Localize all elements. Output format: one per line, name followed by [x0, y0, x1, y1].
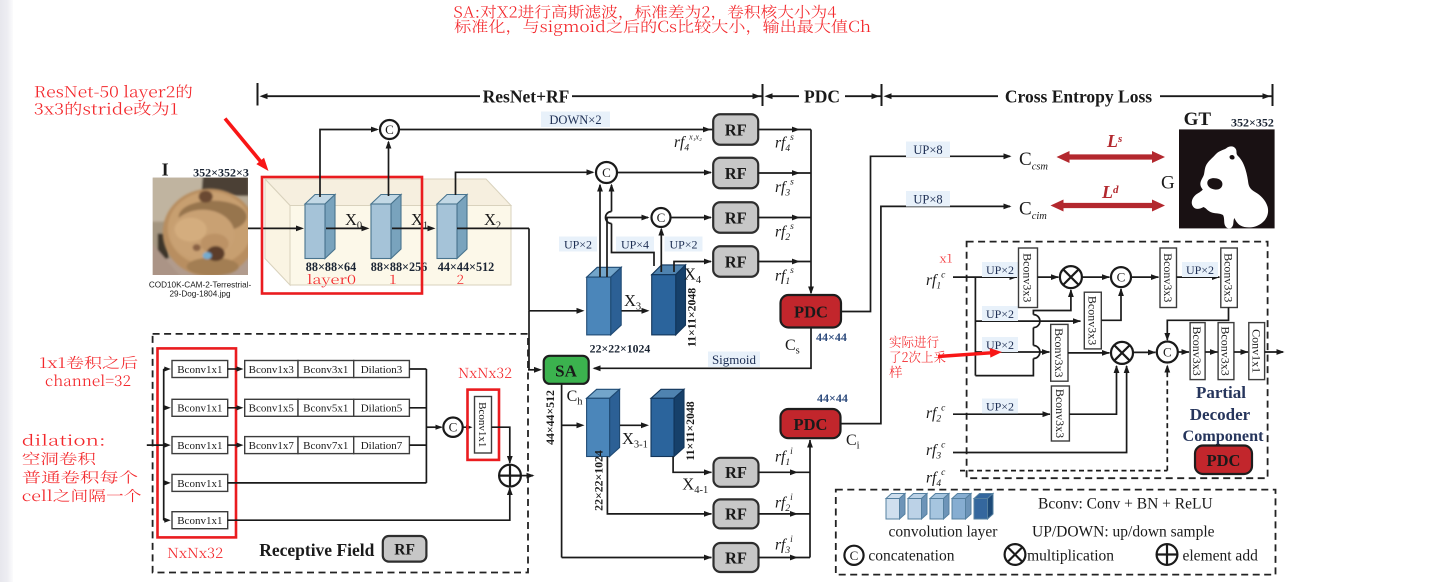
label UPx2 b — [665, 237, 703, 252]
svg-text:UP×2: UP×2 — [669, 237, 697, 251]
svg-text:UP×2: UP×2 — [986, 263, 1014, 277]
wire PDC to sigmoid SA — [594, 328, 811, 369]
wire rf1 branch down — [974, 277, 976, 376]
wire rf1 loop to mult1 — [975, 359, 1033, 376]
red annotation 2x upsample l3 — [889, 366, 902, 378]
Bconv3x3 box r1a — [1019, 248, 1038, 308]
svg-text:C: C — [657, 210, 666, 225]
wire collector to concat — [426, 426, 441, 428]
Bconv1x7 box — [245, 437, 298, 454]
GT image — [1179, 129, 1275, 228]
plus circle RF detail — [499, 465, 521, 487]
slab X2 — [437, 195, 467, 205]
Bconv1x3 box — [245, 361, 298, 378]
Bconv7x1 box — [298, 437, 354, 454]
arrow into Bconv1x1 row5 — [164, 519, 166, 521]
arrow row2 to triple — [228, 407, 238, 409]
label UPx2 r1b — [1182, 262, 1218, 277]
red label layer0 — [308, 274, 356, 287]
svg-text:Bconv3x3: Bconv3x3 — [1021, 253, 1035, 302]
svg-text:Cross Entropy Loss: Cross Entropy Loss — [1005, 86, 1152, 106]
slab X3 — [587, 267, 622, 277]
Bconv1x5 box — [245, 399, 298, 416]
wire X0 up to concat — [320, 130, 377, 198]
wire RF row3 output — [758, 217, 811, 219]
svg-text:Bconv3x3: Bconv3x3 — [1085, 296, 1099, 345]
input dog photo — [151, 176, 257, 277]
label UPx2 r1 — [982, 262, 1018, 277]
legend concat symbol — [844, 546, 863, 565]
svg-text:Partial: Partial — [1196, 383, 1246, 402]
wire row4 to collector — [228, 482, 427, 484]
RF detail output arrow — [521, 475, 533, 477]
svg-text:Bconv5x1: Bconv5x1 — [303, 403, 348, 415]
wire RFi row3 output — [759, 557, 811, 559]
legend add symbol — [1157, 544, 1178, 565]
svg-text:Conv1x1: Conv1x1 — [1249, 329, 1263, 373]
wire X3 up to C2 — [607, 218, 648, 278]
red label NxNx32 right — [459, 368, 512, 379]
slab X4 — [652, 265, 686, 275]
wire rf3 to mult2 — [953, 366, 1127, 453]
Bconv3x3 box r4 — [1051, 386, 1069, 441]
wire X2 to X3 — [529, 310, 578, 312]
concat circle d1 — [1111, 267, 1131, 287]
legend convolution layer slabs — [886, 494, 905, 499]
wire SA to X3-1 — [562, 424, 578, 426]
svg-text:GT: GT — [1184, 109, 1212, 130]
SA box — [544, 356, 589, 384]
svg-text:SA: SA — [555, 362, 577, 381]
wire row5 to plus — [228, 488, 510, 520]
Bconv3x3 box mid — [1084, 292, 1101, 349]
svg-text:C: C — [1117, 270, 1126, 285]
concat circle RF detail — [443, 418, 462, 437]
wire bconv to mult1 — [1038, 276, 1059, 278]
arrow into Bconv1x1 row4 — [164, 482, 166, 484]
Bconv3x3 box r7 — [1190, 323, 1205, 380]
red label NxNx32 bottom — [168, 548, 223, 559]
svg-text:PDC: PDC — [794, 303, 828, 322]
svg-text:Bconv7x1: Bconv7x1 — [303, 440, 348, 452]
backbone box (ResNet trunk) — [265, 179, 511, 206]
svg-text:Bconv3x3: Bconv3x3 — [1190, 326, 1204, 375]
wire RF row2 output — [758, 172, 811, 174]
Bconv1x1 box row5 — [172, 512, 228, 529]
mult circle 2 — [1111, 342, 1133, 364]
RF box row4 — [713, 246, 758, 277]
label UPx2 r4 — [982, 399, 1018, 414]
red annotation ResNet-50 line1 — [35, 84, 192, 101]
svg-text:Component: Component — [1183, 427, 1265, 445]
wire X2 out to right — [457, 227, 529, 229]
section bracket ResNet+RF — [257, 83, 259, 106]
svg-text:Bconv1x5: Bconv1x5 — [249, 403, 295, 415]
red annotation 2x upsample l2 — [890, 351, 945, 363]
wire X3 up to C1 (UPx2) — [599, 185, 601, 277]
wire X4-1 to RFi1 — [673, 457, 711, 473]
svg-text:11×11×2048: 11×11×2048 — [683, 401, 697, 460]
svg-text:RF: RF — [725, 505, 747, 524]
svg-text:C: C — [850, 548, 859, 563]
svg-text:Bconv1x3: Bconv1x3 — [249, 364, 295, 376]
svg-text:Dilation5: Dilation5 — [361, 403, 403, 415]
wire rf1 branch row2 — [975, 320, 1080, 322]
svg-text:RF: RF — [394, 542, 415, 559]
svg-text:UP×8: UP×8 — [913, 192, 942, 206]
RF detail collector wire — [425, 369, 427, 483]
collector wire to PDC top — [810, 130, 812, 294]
wire C2 to RF row3 — [671, 217, 712, 219]
slab X1 — [371, 195, 401, 205]
wire concat to RF4 — [399, 129, 713, 131]
red annotation dilation l1 — [23, 434, 104, 446]
wire X4 up to C2 (UPx2) — [660, 229, 662, 272]
wire concat2 to bconv r7 — [1178, 351, 1189, 353]
svg-text:RF: RF — [725, 548, 747, 567]
RF box i row2 — [714, 499, 759, 528]
Bconv1x1 box row3 — [172, 437, 228, 454]
svg-text:44×44: 44×44 — [816, 330, 847, 344]
wire mid box to concat1 — [1101, 289, 1121, 320]
slab X4-1 — [651, 389, 684, 398]
svg-text:22×22×1024: 22×22×1024 — [591, 450, 605, 511]
svg-text:multiplication: multiplication — [1027, 548, 1114, 565]
section bracket Cross Entropy Loss — [1272, 84, 1274, 106]
Bconv1x1 box row1 — [172, 361, 228, 378]
Dilation3 box — [354, 361, 410, 378]
svg-text:44×44: 44×44 — [817, 391, 848, 405]
label UPx2 a — [559, 237, 597, 252]
svg-text:PDC: PDC — [1207, 451, 1241, 470]
red annotation 1x1conv l1 — [40, 356, 137, 369]
Dilation5 box — [354, 399, 410, 416]
red annotation dilation l3 — [23, 470, 138, 483]
wire r7 to r8 — [1205, 351, 1217, 353]
svg-text:PDC: PDC — [794, 415, 828, 434]
red loss arrow Ls — [1068, 154, 1154, 159]
wire C1 to RF row2 — [617, 172, 711, 174]
svg-text:Bconv3x3: Bconv3x3 — [1161, 253, 1175, 302]
red arrow to row3 — [938, 353, 991, 357]
RF box row2 — [713, 158, 758, 189]
svg-text:Bconv: Conv + BN + ReLU: Bconv: Conv + BN + ReLU — [1038, 496, 1213, 513]
wire mult2 to concat2 — [1133, 351, 1156, 353]
wire rf4 dashed to concat2 — [960, 470, 1167, 472]
wire X2 up to concat C1 — [456, 172, 594, 195]
wire RFi row2 output — [759, 513, 811, 515]
label UPx2 r2 — [982, 306, 1018, 321]
svg-text:Bconv1x1: Bconv1x1 — [177, 364, 222, 376]
PDC box (lower) — [781, 409, 841, 438]
decoder output arrow — [1265, 351, 1283, 353]
wire r3 box to mult2 — [1068, 352, 1110, 354]
red annotation: SA gaussian note line2 — [455, 19, 871, 36]
RF detail dashed box — [153, 334, 528, 573]
arrow into Bconv1x1 row1 — [164, 368, 166, 370]
svg-text:Bconv1x7: Bconv1x7 — [249, 440, 295, 452]
arrow into Bconv1x1 row3 — [164, 444, 166, 446]
arrow row1 to triple — [228, 368, 238, 370]
red label 2 — [457, 275, 463, 284]
svg-text:ResNet+RF: ResNet+RF — [483, 86, 570, 106]
red annotation: SA gaussian note line1 — [454, 5, 836, 21]
svg-text:DOWN×2: DOWN×2 — [549, 113, 601, 127]
svg-text:C: C — [385, 122, 394, 137]
svg-text:88×88×64: 88×88×64 — [306, 260, 356, 274]
svg-text:Bconv3x1: Bconv3x1 — [303, 364, 348, 376]
svg-text:convolution layer: convolution layer — [889, 524, 999, 541]
red rectangle around layer0-1 — [262, 177, 422, 294]
Conv1x1 box — [1249, 323, 1265, 380]
wire row2 to collector — [409, 407, 426, 409]
label Sigmoid — [708, 352, 760, 368]
label UPx2 r3 — [982, 337, 1018, 352]
svg-text:11×11×2048: 11×11×2048 — [685, 288, 699, 347]
Bconv3x3 box r1b — [1160, 248, 1177, 308]
svg-text:Bconv3x3: Bconv3x3 — [1222, 253, 1236, 302]
svg-text:Bconv1x1: Bconv1x1 — [177, 515, 222, 527]
svg-text:22×22×1024: 22×22×1024 — [590, 342, 651, 356]
concat circle X0X1 — [380, 120, 399, 139]
red loss arrow Ld — [1062, 203, 1154, 208]
svg-text:Bconv1x1: Bconv1x1 — [177, 440, 222, 452]
svg-text:RF: RF — [725, 120, 747, 139]
concat circle C2 — [652, 208, 671, 227]
svg-text:RF: RF — [725, 252, 747, 271]
Bconv5x1 box — [298, 399, 354, 416]
red rect around Bconv1x1 column — [158, 348, 237, 537]
svg-text:352×352×3: 352×352×3 — [193, 166, 249, 180]
label UPx4 — [616, 237, 654, 252]
RF box row3 — [713, 202, 758, 233]
wire concat1 to bconv — [1131, 276, 1159, 278]
wire X4 to C1 (UPx4) with hop — [612, 224, 655, 267]
wire RF row4 output — [758, 261, 811, 263]
wire X0 to X1 — [326, 227, 363, 229]
legend mult symbol — [1005, 544, 1026, 565]
red annotation dilation l4 — [23, 489, 141, 502]
wire X3 to X4 — [622, 310, 643, 312]
wire X2 to SA — [528, 311, 530, 370]
wire input image to X0 — [248, 227, 297, 229]
svg-text:RF: RF — [725, 208, 747, 227]
red arrow to backbone — [225, 119, 261, 162]
wire r8 to conv1x1 — [1234, 351, 1248, 353]
svg-text:Bconv3x3: Bconv3x3 — [1053, 389, 1067, 438]
label UPx8 a — [906, 142, 950, 158]
RF detail distributor wire — [163, 369, 165, 520]
red annotation 1x1conv l2 — [46, 374, 131, 386]
wire RF row1 output — [758, 129, 811, 131]
svg-text:PDC: PDC — [804, 86, 840, 106]
wire r4 box to mult2 — [1069, 366, 1116, 414]
Bconv3x3 box r1c — [1221, 248, 1238, 308]
svg-text:UP×4: UP×4 — [621, 237, 649, 251]
wire RFi row1 output — [759, 471, 811, 473]
svg-text:UP/DOWN: up/down sample: UP/DOWN: up/down sample — [1032, 524, 1215, 541]
section bracket PDC — [881, 84, 883, 106]
Bconv1x1 box row4 — [172, 474, 228, 491]
label UPx8 b — [906, 191, 950, 207]
svg-text:Bconv3x3: Bconv3x3 — [1219, 326, 1233, 375]
red box around Bconv1x1 out — [468, 390, 500, 460]
wire SA down trunk — [561, 384, 563, 558]
wire X3-1 to X4-1 — [620, 424, 642, 426]
wire X4 to RF (rf1s) — [674, 262, 711, 273]
svg-text:29-Dog-1804.jpg: 29-Dog-1804.jpg — [170, 290, 231, 299]
legend dashed box — [836, 490, 1276, 575]
label DOWN x2 — [541, 112, 610, 128]
Bconv1x1 box row2 — [172, 399, 228, 416]
Bconv3x3 box r3 — [1051, 324, 1068, 381]
wire PDC1 to Ccsm (UPx8) — [841, 156, 1010, 311]
Bconv3x3 box r8 — [1218, 323, 1234, 380]
wire PDC2 to Ccim (UPx8) — [841, 206, 1011, 423]
wire X1 to X2 — [392, 227, 429, 229]
svg-text:Sigmoid: Sigmoid — [712, 352, 757, 367]
svg-text:C: C — [602, 165, 611, 180]
decoder dashed box — [967, 242, 1268, 479]
wire bconv to bconv (UPx2) — [1177, 276, 1220, 278]
svg-text:UP×2: UP×2 — [986, 307, 1014, 321]
svg-text:RF: RF — [725, 164, 747, 183]
wire SA trunk to RFi3 — [562, 557, 712, 559]
wire rf2 into decoder — [953, 413, 1050, 415]
svg-text:I: I — [162, 160, 169, 180]
mult circle 1 — [1060, 266, 1082, 288]
svg-text:Bconv1x1: Bconv1x1 — [177, 478, 222, 490]
red annotation dilation l2 — [23, 452, 95, 465]
red label 1 — [390, 275, 396, 284]
wire X2 down — [528, 228, 530, 310]
wire row1 to collector — [409, 368, 426, 370]
svg-text:Bconv3x3: Bconv3x3 — [1052, 328, 1066, 377]
svg-text:44×44×512: 44×44×512 — [543, 390, 557, 445]
svg-text:UP×2: UP×2 — [564, 237, 592, 251]
svg-text:COD10K-CAM-2-Terrestrial-: COD10K-CAM-2-Terrestrial- — [149, 281, 252, 290]
RF box i row1 — [714, 458, 759, 487]
RF box row1 — [713, 114, 758, 145]
svg-text:C: C — [449, 420, 458, 435]
svg-text:UP×2: UP×2 — [986, 399, 1014, 413]
svg-text:88×88×256: 88×88×256 — [371, 260, 428, 274]
wire r1c down to concat2 — [1167, 308, 1228, 341]
collector wire to PDC2 bottom — [809, 440, 811, 558]
PDC box (top) — [781, 295, 842, 328]
arrow concat to Bconv1x1 out — [463, 426, 467, 428]
Bconv3x1 box — [298, 361, 354, 378]
svg-text:Receptive Field: Receptive Field — [259, 540, 374, 560]
concat circle C1 — [596, 162, 617, 183]
wire rf1 branch row3 — [975, 351, 1049, 353]
Dilation7 box — [354, 437, 410, 454]
svg-text:UP×8: UP×8 — [913, 143, 942, 157]
RF detail input arrow — [147, 444, 164, 446]
Bconv1x1 out box — [475, 397, 492, 454]
svg-text:Decoder: Decoder — [1190, 405, 1251, 424]
svg-text:352×352: 352×352 — [1231, 116, 1274, 130]
svg-text:RF: RF — [725, 463, 747, 482]
wire rf1 into decoder — [953, 276, 1017, 278]
wire row3 to collector — [409, 444, 426, 446]
RF gray box (legend) — [383, 536, 427, 562]
slab X0 — [305, 195, 335, 205]
svg-text:Dilation7: Dilation7 — [361, 440, 403, 452]
slab X3-1 — [587, 389, 620, 398]
svg-text:G: G — [1161, 173, 1175, 194]
RF box i row3 — [714, 543, 759, 572]
PDC box (legend in decoder) — [1195, 446, 1252, 475]
svg-text:Bconv1x1: Bconv1x1 — [476, 402, 488, 447]
wire X1 up to concat — [388, 142, 390, 196]
svg-text:Dilation3: Dilation3 — [361, 364, 403, 376]
wire X3-1 to RFi2 — [607, 457, 711, 514]
wire out box to plus — [492, 427, 510, 463]
red annotation ResNet-50 line2 — [35, 102, 178, 116]
svg-text:UP×2: UP×2 — [1186, 263, 1214, 277]
svg-text:concatenation: concatenation — [868, 548, 954, 565]
arrow into Bconv1x1 row2 — [164, 407, 166, 409]
wire mult1 to concat1 — [1082, 276, 1110, 278]
red label x1 — [940, 254, 952, 262]
red annotation 2x upsample l1 — [890, 336, 939, 348]
concat circle d2 — [1157, 342, 1178, 363]
svg-text:element add: element add — [1183, 548, 1259, 565]
svg-text:44×44×512: 44×44×512 — [438, 260, 495, 274]
arrow row3 to triple — [228, 444, 238, 446]
svg-text:C: C — [1163, 344, 1172, 359]
svg-text:Bconv1x1: Bconv1x1 — [177, 403, 222, 415]
